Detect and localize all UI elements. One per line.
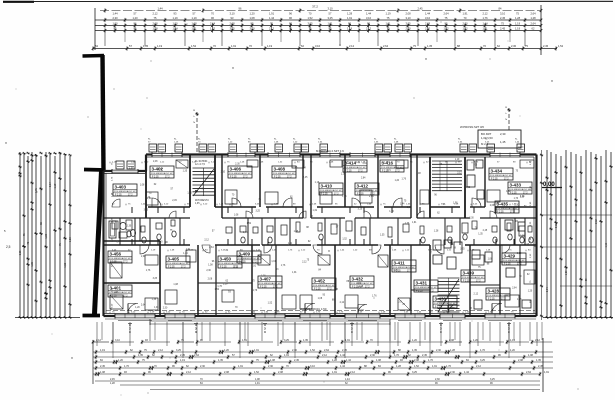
left dimension cluster <box>19 152 21 318</box>
svg-text:1,19: 1,19 <box>510 339 515 342</box>
svg-text:1,52: 1,52 <box>359 310 364 312</box>
door swing arcs <box>152 198 161 207</box>
svg-text:2,12: 2,12 <box>350 371 355 374</box>
svg-text:1,08: 1,08 <box>376 359 381 362</box>
svg-text:1,08: 1,08 <box>453 203 458 205</box>
svg-text:37,2: 37,2 <box>312 5 318 9</box>
svg-text:1,35: 1,35 <box>407 207 412 209</box>
balcony dimension box top-right <box>478 130 521 148</box>
svg-text:3,25: 3,25 <box>176 349 181 352</box>
svg-text:2,30: 2,30 <box>127 226 132 228</box>
svg-text:17,2: 17,2 <box>429 291 434 293</box>
svg-text:1,91: 1,91 <box>252 266 257 268</box>
svg-text:3,25: 3,25 <box>327 16 333 20</box>
svg-text:1,19: 1,19 <box>267 44 273 48</box>
svg-text:F 2,35: F 2,35 <box>491 179 498 181</box>
svg-text:1,91: 1,91 <box>284 354 289 357</box>
svg-text:17,2: 17,2 <box>358 171 363 173</box>
svg-text:1,44: 1,44 <box>112 12 118 16</box>
svg-text:POK.MIESZKALNY SZT: POK.MIESZKALNY SZT <box>434 302 457 305</box>
room labels <box>113 184 137 196</box>
svg-text:17,2: 17,2 <box>128 195 133 197</box>
svg-text:1,08: 1,08 <box>173 284 178 286</box>
svg-text:1,19: 1,19 <box>223 283 228 285</box>
svg-text:1,52: 1,52 <box>357 283 362 285</box>
svg-text:1,91: 1,91 <box>345 339 350 342</box>
closet stubs <box>131 207 133 213</box>
svg-text:3,25: 3,25 <box>393 270 398 272</box>
svg-text:1,52: 1,52 <box>254 371 259 374</box>
svg-text:1,20: 1,20 <box>341 173 346 175</box>
svg-text:1,91: 1,91 <box>254 349 259 352</box>
bathroom left protrusion <box>104 240 160 242</box>
vent boxes on top wall <box>149 144 157 152</box>
svg-text:3,10: 3,10 <box>229 12 235 16</box>
svg-text:2,45: 2,45 <box>500 27 506 31</box>
svg-text:1,52: 1,52 <box>414 365 419 368</box>
svg-text:1,76: 1,76 <box>342 196 347 198</box>
scan noise dots <box>114 89 115 90</box>
svg-text:POK.MIESZKALNY SZT: POK.MIESZKALNY SZT <box>462 276 485 279</box>
svg-text:2,45: 2,45 <box>303 177 308 179</box>
svg-text:POK.MIESZKALNY SZT: POK.MIESZKALNY SZT <box>109 257 132 260</box>
svg-text:17,2: 17,2 <box>273 287 278 289</box>
svg-text:1,91: 1,91 <box>238 365 243 368</box>
svg-text:3,10: 3,10 <box>405 16 411 20</box>
svg-text:1,08: 1,08 <box>270 359 275 362</box>
svg-text:17,2: 17,2 <box>252 262 257 264</box>
svg-text:1,08: 1,08 <box>249 16 255 20</box>
svg-text:1,44: 1,44 <box>269 16 275 20</box>
svg-text:1,08: 1,08 <box>234 215 239 217</box>
svg-text:2,64: 2,64 <box>49 182 52 187</box>
svg-text:F 2,35: F 2,35 <box>230 177 237 179</box>
dimension line right of building <box>541 150 543 320</box>
svg-text:2,30: 2,30 <box>268 365 273 368</box>
svg-text:3-432: 3-432 <box>352 277 364 282</box>
svg-text:2,08: 2,08 <box>141 256 146 258</box>
section line left stair <box>196 112 198 155</box>
svg-text:3,25: 3,25 <box>255 210 260 212</box>
svg-text:POK.MIESZKALNY SZT: POK.MIESZKALNY SZT <box>415 286 438 289</box>
svg-text:2,12: 2,12 <box>204 239 209 241</box>
svg-text:1,28: 1,28 <box>113 292 118 294</box>
svg-text:1,20: 1,20 <box>412 339 417 342</box>
svg-text:1,19: 1,19 <box>315 182 320 184</box>
svg-text:17,2: 17,2 <box>517 264 522 266</box>
svg-text:3,25: 3,25 <box>153 278 158 280</box>
svg-text:3,25: 3,25 <box>412 371 417 374</box>
svg-text:POK.MIESZKALNY SZT: POK.MIESZKALNY SZT <box>320 189 343 192</box>
svg-text:1,35: 1,35 <box>303 339 308 342</box>
svg-text:1,45: 1,45 <box>500 140 506 144</box>
svg-text:F 2,35: F 2,35 <box>357 194 364 196</box>
svg-text:1,76: 1,76 <box>428 359 433 362</box>
svg-text:17,2: 17,2 <box>334 194 339 196</box>
svg-text:POK.MIESZKALNY SZT: POK.MIESZKALNY SZT <box>503 259 526 262</box>
svg-text:2,64: 2,64 <box>512 288 517 290</box>
svg-text:3-430: 3-430 <box>435 297 447 302</box>
svg-text:1,20: 1,20 <box>45 233 48 238</box>
svg-text:3-410: 3-410 <box>321 184 333 189</box>
svg-text:POK.MIESZKALNY SZT: POK.MIESZKALNY SZT <box>229 172 252 175</box>
svg-text:1,20: 1,20 <box>528 290 533 292</box>
svg-text:1,44: 1,44 <box>366 12 372 16</box>
svg-text:1,20: 1,20 <box>224 349 229 352</box>
svg-text:17,2: 17,2 <box>181 267 186 269</box>
svg-text:1,76: 1,76 <box>187 192 192 194</box>
svg-text:1,20: 1,20 <box>69 237 72 242</box>
svg-text:1,52: 1,52 <box>307 16 313 20</box>
svg-text:2,08: 2,08 <box>449 339 454 342</box>
svg-text:1,91: 1,91 <box>255 382 260 385</box>
svg-text:F 2,35: F 2,35 <box>168 267 175 269</box>
svg-text:2,30: 2,30 <box>206 270 211 272</box>
svg-text:1,28: 1,28 <box>31 261 34 266</box>
svg-text:1,28: 1,28 <box>332 359 337 362</box>
svg-text:2,30: 2,30 <box>469 218 474 220</box>
svg-text:POK.MIESZKALNY SZT: POK.MIESZKALNY SZT <box>393 266 416 269</box>
svg-text:3-406: 3-406 <box>230 167 242 172</box>
top dimension strip <box>100 10 541 12</box>
svg-text:1,35: 1,35 <box>412 349 417 352</box>
svg-text:3,25: 3,25 <box>355 162 360 164</box>
svg-text:1,91: 1,91 <box>544 371 549 374</box>
svg-text:1,08: 1,08 <box>140 185 145 187</box>
svg-text:F 2,35: F 2,35 <box>345 171 352 173</box>
svg-text:1,91: 1,91 <box>154 307 159 309</box>
svg-text:3-412: 3-412 <box>357 184 369 189</box>
svg-text:2,30: 2,30 <box>292 349 297 352</box>
svg-text:3-433: 3-433 <box>510 183 522 188</box>
middle band cell walls <box>119 218 121 245</box>
svg-text:1,91: 1,91 <box>462 12 468 16</box>
svg-text:1,76: 1,76 <box>480 349 485 352</box>
svg-text:3,25: 3,25 <box>284 339 289 342</box>
svg-text:1,35: 1,35 <box>195 203 200 205</box>
svg-text:1,52: 1,52 <box>342 239 347 241</box>
svg-text:2,12: 2,12 <box>152 12 158 16</box>
building outer walls <box>146 153 537 155</box>
svg-text:2,12: 2,12 <box>556 223 558 228</box>
svg-text:1,44: 1,44 <box>464 371 469 374</box>
svg-text:1,08: 1,08 <box>129 167 134 169</box>
svg-text:2,64: 2,64 <box>530 22 536 26</box>
svg-text:1,20: 1,20 <box>566 270 568 275</box>
svg-text:POK.MIESZKALNY SZT: POK.MIESZKALNY SZT <box>273 172 296 175</box>
stairwell left treads <box>193 167 215 169</box>
svg-text:3,25: 3,25 <box>480 359 485 362</box>
svg-text:3-403: 3-403 <box>115 185 127 190</box>
svg-text:3-405: 3-405 <box>168 257 180 262</box>
svg-text:2,64: 2,64 <box>324 349 329 352</box>
svg-text:1,76: 1,76 <box>253 290 258 292</box>
svg-text:1,44: 1,44 <box>345 378 350 381</box>
svg-text:1,76: 1,76 <box>446 365 451 368</box>
svg-text:1,20: 1,20 <box>135 307 140 309</box>
svg-text:2,64: 2,64 <box>194 354 199 357</box>
svg-text:17,2: 17,2 <box>365 287 370 289</box>
balcony terrace lines <box>150 320 390 322</box>
svg-text:3,10: 3,10 <box>500 12 506 16</box>
svg-text:1,28: 1,28 <box>396 365 401 368</box>
svg-text:1,52: 1,52 <box>191 44 197 48</box>
svg-text:1,76: 1,76 <box>402 178 407 180</box>
svg-text:1,35: 1,35 <box>234 267 239 269</box>
svg-text:1,19: 1,19 <box>312 210 317 212</box>
svg-text:1,44: 1,44 <box>183 253 188 255</box>
svg-text:3-431: 3-431 <box>416 281 428 286</box>
svg-text:1,28: 1,28 <box>450 349 455 352</box>
svg-text:1,19: 1,19 <box>54 183 57 188</box>
svg-text:17,2: 17,2 <box>476 281 481 283</box>
svg-text:1,08: 1,08 <box>153 161 158 163</box>
svg-text:2,12: 2,12 <box>322 354 327 357</box>
svg-text:2,12: 2,12 <box>535 339 540 342</box>
svg-text:1,19: 1,19 <box>100 349 105 352</box>
svg-text:1,35: 1,35 <box>536 359 541 362</box>
svg-text:2,12: 2,12 <box>457 172 462 174</box>
section line horizontal <box>106 310 535 312</box>
svg-text:3-434: 3-434 <box>491 169 503 174</box>
svg-text:1,76: 1,76 <box>514 198 519 200</box>
svg-text:1,76: 1,76 <box>450 308 455 310</box>
svg-text:1,76: 1,76 <box>372 296 377 298</box>
svg-text:3,10: 3,10 <box>310 365 315 368</box>
svg-text:17,2: 17,2 <box>287 177 292 179</box>
svg-text:1,08: 1,08 <box>255 378 260 381</box>
svg-text:F 2,35: F 2,35 <box>416 291 423 293</box>
svg-text:1,35: 1,35 <box>427 44 433 48</box>
svg-text:POK.MIESZKALNY SZT: POK.MIESZKALNY SZT <box>356 189 379 192</box>
svg-text:POK.MIESZKALNY SZT: POK.MIESZKALNY SZT <box>496 207 519 210</box>
svg-text:3,10: 3,10 <box>362 163 367 165</box>
svg-text:1,91: 1,91 <box>432 365 437 368</box>
svg-text:1,20: 1,20 <box>249 12 255 16</box>
svg-text:1,28: 1,28 <box>434 231 439 233</box>
svg-text:F 2,35: F 2,35 <box>220 267 227 269</box>
svg-text:17,2: 17,2 <box>501 299 506 301</box>
svg-text:2,12: 2,12 <box>96 339 101 342</box>
svg-text:1,91: 1,91 <box>288 243 293 245</box>
svg-text:1,20: 1,20 <box>118 359 123 362</box>
svg-text:1,20: 1,20 <box>147 198 152 200</box>
svg-text:1,52: 1,52 <box>215 289 220 291</box>
svg-text:1,44: 1,44 <box>340 365 345 368</box>
svg-text:1,91: 1,91 <box>397 301 402 303</box>
svg-text:2,30: 2,30 <box>436 349 441 352</box>
thick marker bracket lower <box>95 171 102 314</box>
svg-text:1,91: 1,91 <box>231 44 237 48</box>
svg-text:17,2: 17,2 <box>407 271 412 273</box>
svg-text:75: 75 <box>59 243 62 246</box>
svg-text:2,45: 2,45 <box>422 354 427 357</box>
svg-text:W.PODESTU: W.PODESTU <box>195 200 209 202</box>
svg-text:1,76: 1,76 <box>281 265 286 267</box>
svg-text:1,35: 1,35 <box>380 235 385 237</box>
svg-text:2,5: 2,5 <box>6 245 11 249</box>
svg-text:1,91: 1,91 <box>292 272 297 274</box>
svg-text:1,76: 1,76 <box>124 365 129 368</box>
windows <box>152 153 182 156</box>
svg-text:2,45: 2,45 <box>500 16 506 20</box>
svg-text:1,28: 1,28 <box>110 382 115 385</box>
svg-text:17,2: 17,2 <box>123 262 128 264</box>
svg-text:2,30: 2,30 <box>200 365 205 368</box>
svg-text:1,08: 1,08 <box>208 264 213 266</box>
svg-text:3,25: 3,25 <box>19 250 22 255</box>
svg-text:1,76: 1,76 <box>217 286 222 288</box>
bottom band room walls <box>159 241 161 316</box>
svg-text:3-452: 3-452 <box>314 279 326 284</box>
svg-text:POK.MIESZKALNY SZT: POK.MIESZKALNY SZT <box>167 262 190 265</box>
svg-text:1,44: 1,44 <box>400 203 405 205</box>
svg-text:2,12: 2,12 <box>340 302 345 304</box>
right dimension cluster <box>546 150 548 318</box>
svg-text:2,30: 2,30 <box>514 204 519 206</box>
svg-text:1,08: 1,08 <box>318 298 323 300</box>
svg-text:2,30: 2,30 <box>450 371 455 374</box>
svg-text:2,30: 2,30 <box>235 163 240 165</box>
svg-text:F 2,35: F 2,35 <box>321 194 328 196</box>
svg-text:2,08: 2,08 <box>520 235 525 237</box>
svg-text:1,35: 1,35 <box>152 299 157 301</box>
svg-text:POK.MIESZKALNY SZT: POK.MIESZKALNY SZT <box>344 166 367 169</box>
svg-text:POK.MIESZKALNY SZT: POK.MIESZKALNY SZT <box>509 188 532 191</box>
svg-text:17,2: 17,2 <box>123 296 128 298</box>
svg-text:F 2,35: F 2,35 <box>239 262 246 264</box>
svg-text:1,08: 1,08 <box>100 371 105 374</box>
svg-text:1,52: 1,52 <box>558 44 564 48</box>
svg-text:1,52: 1,52 <box>310 349 315 352</box>
svg-text:1,76: 1,76 <box>158 169 163 171</box>
svg-text:3-439: 3-439 <box>463 271 475 276</box>
svg-text:1,35: 1,35 <box>143 44 149 48</box>
svg-text:2,64: 2,64 <box>443 12 449 16</box>
svg-text:2,64: 2,64 <box>383 44 389 48</box>
svg-text:12 x 17,5: 12 x 17,5 <box>195 163 206 166</box>
svg-text:2,45: 2,45 <box>294 359 299 362</box>
svg-text:1,91: 1,91 <box>271 261 276 263</box>
svg-text:3,10: 3,10 <box>221 172 226 174</box>
svg-text:M.PROSNA 2.SZT 1:6: M.PROSNA 2.SZT 1:6 <box>316 149 344 153</box>
svg-text:1,52: 1,52 <box>64 262 67 267</box>
svg-text:2,12: 2,12 <box>158 349 163 352</box>
svg-text:F 2,35: F 2,35 <box>260 287 267 289</box>
svg-text:3,10: 3,10 <box>517 253 522 255</box>
stairwell right-bottom treads <box>438 277 460 279</box>
svg-text:F 2,35: F 2,35 <box>435 307 442 309</box>
svg-text:1,76: 1,76 <box>389 211 394 213</box>
svg-text:2,12: 2,12 <box>302 262 307 264</box>
svg-text:1,35: 1,35 <box>218 359 223 362</box>
svg-text:1,19: 1,19 <box>172 16 178 20</box>
svg-text:POK.MIESZKALNY SZT: POK.MIESZKALNY SZT <box>259 282 282 285</box>
svg-text:3-428: 3-428 <box>488 289 500 294</box>
svg-text:2,45: 2,45 <box>100 365 105 368</box>
svg-text:F 2,35: F 2,35 <box>497 212 504 214</box>
svg-text:1,76: 1,76 <box>405 223 410 225</box>
svg-text:1,44: 1,44 <box>243 232 248 234</box>
stairwell right-top treads <box>432 160 462 162</box>
svg-text:17,2: 17,2 <box>504 179 509 181</box>
svg-text:2,64: 2,64 <box>141 305 146 307</box>
svg-text:3,10: 3,10 <box>315 44 321 48</box>
svg-text:2,12: 2,12 <box>186 371 191 374</box>
svg-text:1,91: 1,91 <box>269 12 275 16</box>
svg-text:2,64: 2,64 <box>369 196 374 198</box>
svg-text:2,08: 2,08 <box>518 359 523 362</box>
svg-text:2,12: 2,12 <box>482 12 488 16</box>
svg-text:1,91: 1,91 <box>242 339 247 342</box>
svg-text:1,44: 1,44 <box>520 196 525 198</box>
svg-text:POK.MIESZKALNY SZT: POK.MIESZKALNY SZT <box>114 190 137 193</box>
svg-text:17,2: 17,2 <box>523 193 528 195</box>
svg-text:1,35: 1,35 <box>183 171 188 173</box>
svg-text:2,45: 2,45 <box>483 230 488 232</box>
page top border line <box>3 1 613 3</box>
svg-text:POK.MIESZKALNY SZT: POK.MIESZKALNY SZT <box>490 174 513 177</box>
svg-text:1,52: 1,52 <box>247 223 252 225</box>
svg-text:F 2,35: F 2,35 <box>115 195 122 197</box>
svg-text:3-429: 3-429 <box>504 254 516 259</box>
svg-text:2,08: 2,08 <box>224 371 229 374</box>
svg-text:3,25: 3,25 <box>490 378 495 381</box>
svg-text:2,64: 2,64 <box>361 178 366 180</box>
svg-text:17,2: 17,2 <box>395 171 400 173</box>
svg-text:2,12: 2,12 <box>450 244 455 246</box>
svg-text:1,44: 1,44 <box>346 359 351 362</box>
svg-text:2,64: 2,64 <box>526 371 531 374</box>
svg-text:2,08: 2,08 <box>278 371 283 374</box>
svg-text:1,20: 1,20 <box>473 339 478 342</box>
svg-text:F 2,35: F 2,35 <box>463 281 470 283</box>
svg-text:1,08: 1,08 <box>416 173 421 175</box>
svg-text:2,30: 2,30 <box>511 44 517 48</box>
svg-text:1,20: 1,20 <box>510 349 515 352</box>
svg-text:2,45: 2,45 <box>417 7 423 11</box>
svg-text:1,08: 1,08 <box>488 259 493 261</box>
svg-text:F 2,35: F 2,35 <box>504 264 511 266</box>
svg-text:3,10: 3,10 <box>115 339 120 342</box>
svg-text:1,19: 1,19 <box>606 242 608 247</box>
svg-text:2,08: 2,08 <box>405 12 411 16</box>
svg-text:3-456: 3-456 <box>110 252 122 257</box>
svg-text:F 2,35: F 2,35 <box>488 299 495 301</box>
svg-text:3-409: 3-409 <box>239 252 251 257</box>
svg-text:17,2: 17,2 <box>165 177 170 179</box>
bottom dimension strip <box>96 322 98 346</box>
svg-text:1,08: 1,08 <box>528 354 533 357</box>
svg-text:1,44: 1,44 <box>157 7 163 11</box>
interior walls upper band <box>145 171 147 218</box>
svg-text:3-408: 3-408 <box>274 167 286 172</box>
svg-text:F 2,35: F 2,35 <box>274 177 281 179</box>
svg-text:1,35: 1,35 <box>138 354 143 357</box>
svg-text:3,25: 3,25 <box>460 248 465 250</box>
svg-text:2,12: 2,12 <box>476 365 481 368</box>
svg-text:2,08: 2,08 <box>208 278 213 280</box>
svg-text:3,10: 3,10 <box>327 7 333 11</box>
svg-text:F 2,35: F 2,35 <box>314 289 321 291</box>
svg-text:3-411: 3-411 <box>394 261 406 266</box>
svg-text:1,91: 1,91 <box>347 16 353 20</box>
svg-text:POK.MIESZKALNY SZT: POK.MIESZKALNY SZT <box>151 172 174 175</box>
svg-text:3-450: 3-450 <box>220 257 232 262</box>
svg-text:2,30: 2,30 <box>500 132 506 136</box>
svg-text:1,19: 1,19 <box>455 159 460 161</box>
svg-text:1,91: 1,91 <box>412 222 417 224</box>
